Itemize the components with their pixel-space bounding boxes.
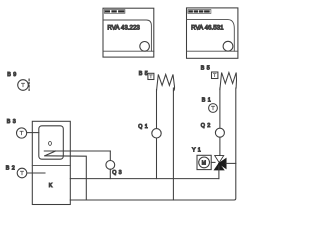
pump Q1: [152, 129, 161, 138]
wire: flow line: [70, 178, 219, 180]
svg-text:K: K: [49, 183, 53, 189]
wire: circuit1 return pipe: [172, 88, 174, 200]
controller U1 RVA 43.223: [103, 8, 154, 57]
boiler outer box: [32, 121, 70, 204]
wire: coil upper / flow to Q3: [44, 150, 110, 152]
wire: valve bottom stem: [218, 166, 220, 179]
svg-text:M: M: [202, 161, 206, 167]
svg-text:RVA 43.223: RVA 43.223: [107, 25, 140, 32]
svg-text:Y 1: Y 1: [192, 148, 201, 154]
wire: coil lower return: [45, 156, 87, 200]
sensor B1: [202, 98, 218, 113]
coil diagonal: [45, 151, 56, 156]
svg-text:B 1: B 1: [202, 98, 211, 104]
pump Q3: [106, 161, 115, 170]
valve Y1 three-way: [215, 156, 227, 170]
svg-text:Q 2: Q 2: [201, 123, 211, 129]
wire: circuit1 flow pipe: [156, 90, 158, 179]
wire: valve bypass to return pipe: [226, 162, 236, 164]
room unit B5 circuit2: [201, 66, 218, 79]
svg-text:B 5: B 5: [201, 66, 210, 72]
svg-text:Q 1: Q 1: [138, 124, 148, 130]
wire: Q3 drop lower: [109, 169, 111, 178]
wire: circuit2 flow pipe upper: [219, 88, 221, 156]
DHW tank: [39, 126, 64, 159]
wire: Q3 drop upper: [109, 151, 111, 161]
svg-text:B 2: B 2: [6, 166, 15, 172]
controller U2 RVA 46.531: [187, 8, 238, 58]
sensor B3: [7, 119, 39, 138]
sensor B9 outside sensor: [7, 72, 29, 92]
pump Q2: [215, 128, 224, 137]
svg-text:Q 3: Q 3: [112, 170, 122, 176]
tank mark o: [49, 141, 52, 145]
svg-text:B 3: B 3: [7, 119, 16, 125]
boiler compartment divider: [32, 165, 70, 167]
room unit B5 circuit1: [139, 71, 154, 79]
svg-text:RVA 46.531: RVA 46.531: [191, 25, 224, 32]
svg-text:B 9: B 9: [7, 72, 16, 78]
sensor B2: [6, 166, 45, 178]
radiator 2: [220, 73, 237, 90]
valve Y1 actuator: [192, 148, 215, 170]
svg-text:B 5: B 5: [139, 71, 148, 77]
wire: return line: [70, 88, 236, 200]
radiator 1: [157, 74, 175, 91]
